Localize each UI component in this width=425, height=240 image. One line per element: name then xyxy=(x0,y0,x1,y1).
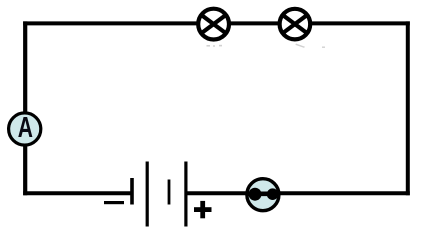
lamp L2 xyxy=(280,9,311,40)
switch S1 (closed) xyxy=(247,179,279,211)
battery negative terminal plate xyxy=(130,178,134,205)
wire right xyxy=(406,21,410,195)
lamp L1 xyxy=(198,9,229,40)
smudge artifacts under lamps xyxy=(207,44,326,48)
wire bottom-left (to battery) xyxy=(23,191,131,195)
wire left xyxy=(23,21,27,195)
switch contact dot right xyxy=(267,188,279,200)
battery long plate 1 xyxy=(146,162,149,227)
wire top xyxy=(23,21,410,25)
ammeter A xyxy=(9,112,41,145)
wire bottom-right (battery to corner) xyxy=(186,191,410,195)
label plus xyxy=(194,207,212,212)
wire through switch xyxy=(247,192,279,197)
label minus xyxy=(104,201,124,204)
svg-text:A: A xyxy=(18,112,33,144)
switch contact dot left xyxy=(249,188,262,201)
battery B1 xyxy=(104,162,212,227)
battery short plate (middle) xyxy=(168,180,171,205)
battery long plate 2 xyxy=(184,162,187,227)
